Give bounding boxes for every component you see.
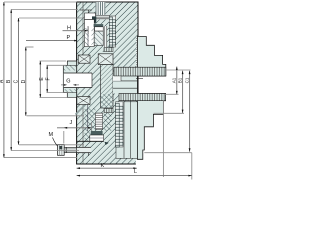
svg-text:A1: A1	[172, 77, 177, 83]
svg-text:H: H	[67, 26, 71, 32]
svg-text:L: L	[134, 169, 137, 175]
svg-text:F: F	[46, 77, 52, 80]
svg-text:C1: C1	[185, 77, 190, 83]
svg-text:B1: B1	[178, 77, 183, 83]
svg-text:M: M	[49, 132, 54, 138]
svg-text:P: P	[67, 35, 71, 41]
svg-text:D: D	[21, 79, 27, 83]
svg-text:J: J	[70, 120, 73, 126]
svg-text:C: C	[14, 79, 20, 83]
svg-text:G: G	[66, 79, 70, 85]
svg-text:K: K	[101, 163, 105, 169]
